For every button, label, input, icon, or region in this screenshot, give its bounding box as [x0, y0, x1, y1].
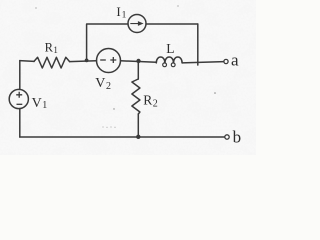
- voltage source V1: [9, 89, 28, 108]
- current source I1: [128, 15, 146, 33]
- inductor L: [156, 57, 182, 63]
- junction node R2/bottom rail: [136, 135, 140, 139]
- V2 minus sign: [100, 59, 106, 61]
- V1 plus sign: [16, 92, 22, 98]
- V2 plus sign: [110, 57, 116, 63]
- wire R2 top stub: [137, 61, 139, 79]
- resistor R2: [132, 79, 140, 114]
- V1 minus sign: [17, 103, 23, 105]
- svg-text:I: I: [116, 4, 120, 19]
- I1 arrow: [130, 23, 139, 24]
- wire V2 to R2 junction: [121, 61, 157, 62]
- svg-text:1: 1: [122, 11, 127, 21]
- wire top rail right of I1: [146, 23, 198, 25]
- junction node at V2/R2/L: [136, 59, 140, 63]
- svg-text:V: V: [95, 76, 105, 91]
- inductor loop 2: [171, 63, 175, 67]
- wire middle rail left: [20, 60, 34, 63]
- wire bottom rail: [20, 136, 225, 138]
- svg-text:a: a: [231, 51, 239, 70]
- junction node at R1/V2/top branch: [85, 59, 89, 63]
- wire left rail bottom: [19, 109, 21, 137]
- svg-text:R: R: [143, 93, 152, 108]
- wire R2 bottom stub: [137, 114, 139, 137]
- wire L to terminal a: [182, 62, 224, 63]
- wire R1 to junction: [70, 60, 97, 63]
- svg-text:1: 1: [53, 45, 58, 55]
- inductor loop 1: [163, 63, 167, 67]
- terminal b: [225, 135, 229, 139]
- voltage source V2: [97, 49, 121, 73]
- svg-text:L: L: [166, 41, 174, 56]
- svg-text:2: 2: [106, 81, 111, 92]
- terminal a: [224, 59, 228, 63]
- svg-text:R: R: [45, 41, 54, 55]
- wire left rail top: [19, 61, 21, 90]
- wire top-left vertical: [87, 24, 128, 60]
- svg-text:1: 1: [42, 100, 47, 111]
- svg-text:V: V: [32, 96, 42, 111]
- svg-text:2: 2: [153, 98, 158, 109]
- svg-text:b: b: [233, 128, 242, 147]
- wire top-right vertical: [197, 24, 199, 65]
- resistor R1: [34, 57, 70, 68]
